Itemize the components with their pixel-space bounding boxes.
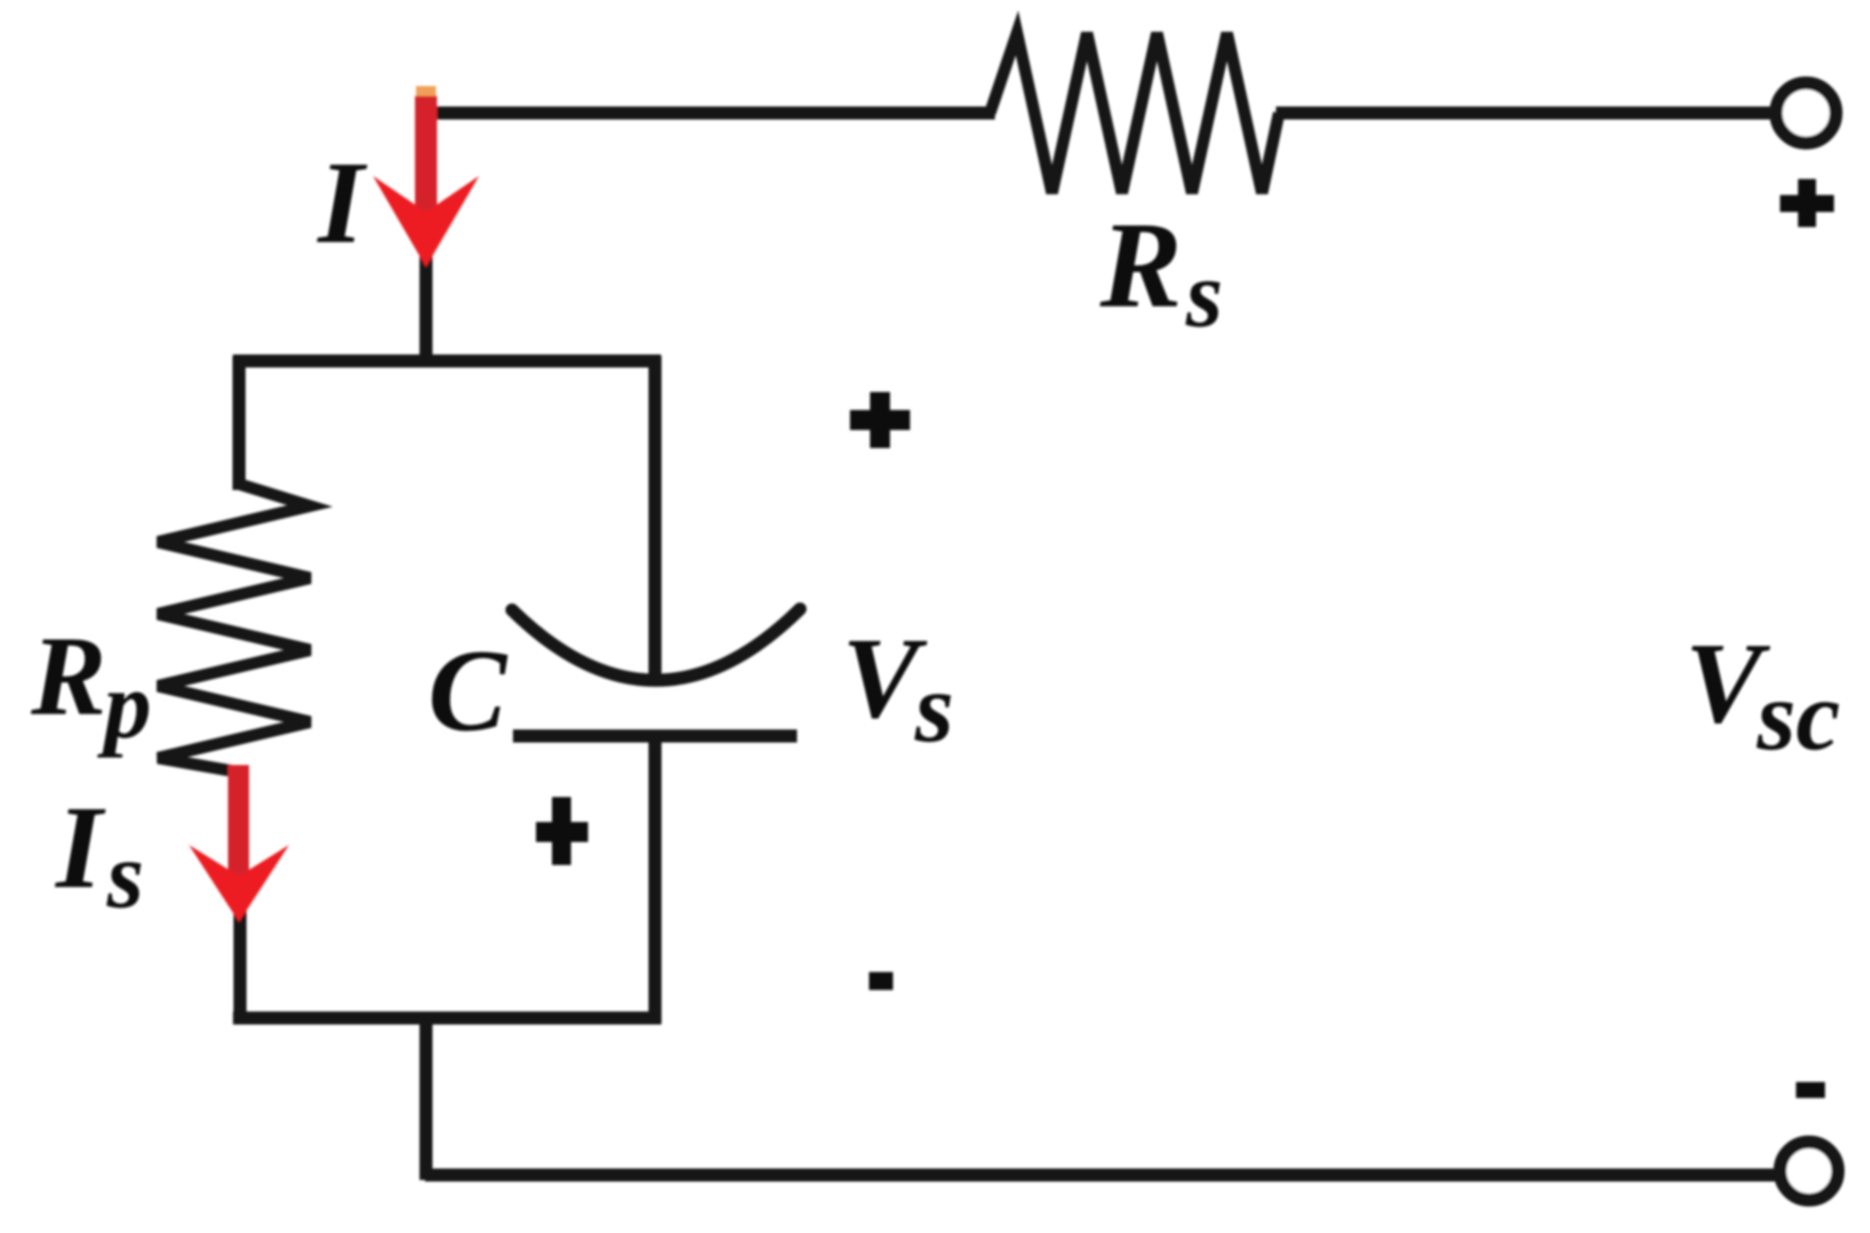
svg-text:R: R bbox=[30, 614, 106, 739]
wire: bottom to negative terminal bbox=[425, 1169, 1781, 1182]
wire: top node to Rs bbox=[421, 107, 995, 120]
svg-text:p: p bbox=[97, 652, 152, 758]
label Rp bbox=[30, 614, 152, 758]
svg-text:C: C bbox=[428, 625, 508, 756]
svg-text:s: s bbox=[1185, 241, 1223, 347]
current arrow I (red) bbox=[373, 86, 479, 267]
current arrow Is (red) bbox=[189, 765, 289, 922]
wire: bottom stub bbox=[420, 1018, 433, 1180]
resistor Rs bbox=[990, 33, 1279, 193]
svg-text:I: I bbox=[54, 781, 106, 913]
label Is bbox=[54, 781, 144, 928]
svg-text:I: I bbox=[316, 137, 368, 268]
capacitor C straight plate bbox=[513, 730, 797, 743]
label: - polarity of Vs bbox=[869, 972, 893, 990]
label: + polarity of Vs bbox=[850, 392, 910, 448]
terminal: positive (top right) bbox=[1776, 83, 1836, 143]
wire: left branch upper bbox=[233, 356, 246, 490]
terminal: negative (bottom right) bbox=[1780, 1142, 1838, 1200]
wire: box top bbox=[233, 355, 661, 368]
label Vsc bbox=[1685, 620, 1840, 771]
wire: Rs to positive terminal bbox=[1276, 107, 1778, 120]
label: - polarity of Vsc bbox=[1796, 1082, 1825, 1098]
svg-text:s: s bbox=[106, 822, 144, 928]
capacitor C curved plate bbox=[512, 609, 800, 680]
wire: right branch lower bbox=[649, 742, 662, 1024]
label: + polarity of Vsc bbox=[1780, 179, 1834, 227]
wire: left branch lower bbox=[234, 905, 247, 1024]
resistor Rp bbox=[158, 484, 310, 772]
label Rs bbox=[1099, 196, 1223, 347]
svg-text:sc: sc bbox=[1756, 660, 1840, 771]
label: + polarity of C bbox=[536, 797, 588, 865]
svg-text:R: R bbox=[1099, 196, 1182, 333]
wire: box bottom bbox=[233, 1012, 661, 1025]
wire: right branch upper bbox=[649, 356, 662, 674]
svg-text:s: s bbox=[914, 652, 954, 763]
wire: vertical from top node to box top bbox=[420, 107, 433, 364]
label Vs bbox=[842, 615, 954, 763]
